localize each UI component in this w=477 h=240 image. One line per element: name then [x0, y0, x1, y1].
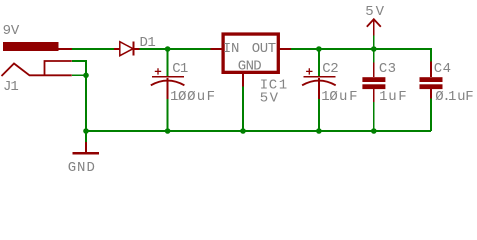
- svg-text:9V: 9V: [3, 23, 20, 39]
- svg-text:D1: D1: [140, 35, 156, 51]
- svg-text:1ØuF: 1ØuF: [321, 89, 357, 105]
- svg-text:J1: J1: [3, 79, 19, 95]
- svg-text:1ØØuF: 1ØØuF: [170, 89, 215, 105]
- svg-text:C3: C3: [379, 61, 396, 77]
- svg-text:Ø.1uF: Ø.1uF: [435, 89, 473, 105]
- svg-text:5V: 5V: [365, 4, 384, 20]
- svg-text:1uF: 1uF: [379, 89, 407, 105]
- svg-text:C4: C4: [434, 61, 451, 77]
- svg-text:GND: GND: [68, 160, 95, 176]
- svg-text:5V: 5V: [260, 90, 279, 106]
- svg-text:C2: C2: [322, 61, 339, 77]
- svg-text:IN: IN: [223, 41, 240, 57]
- svg-text:GND: GND: [238, 59, 262, 75]
- svg-text:OUT: OUT: [252, 41, 276, 57]
- svg-text:C1: C1: [172, 61, 188, 77]
